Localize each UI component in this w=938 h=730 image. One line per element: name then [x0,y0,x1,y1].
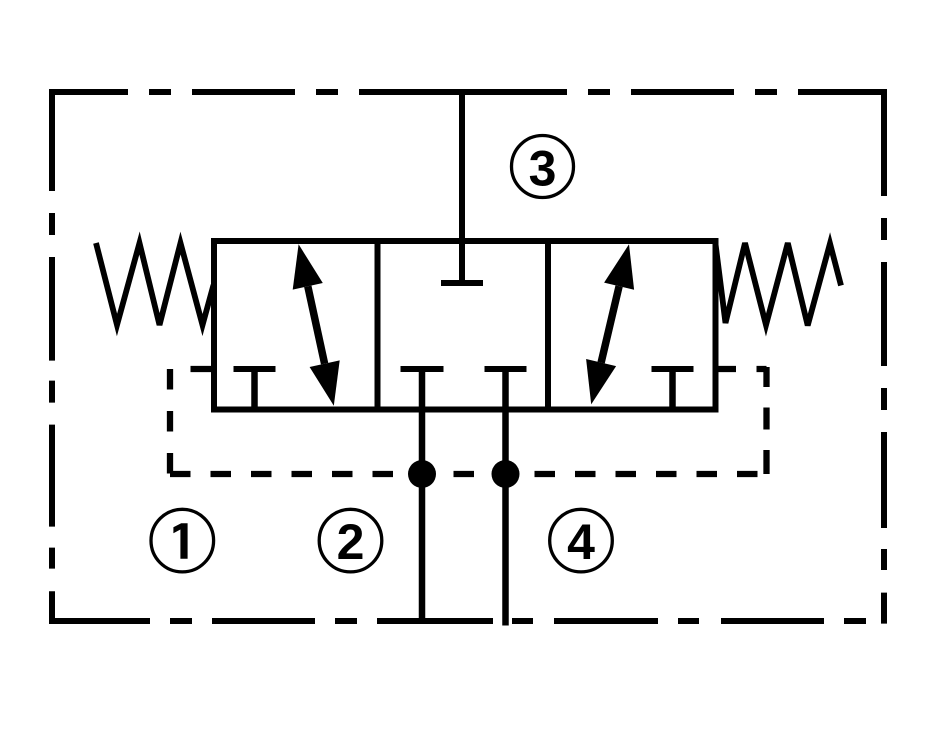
dashed box left edge [167,369,173,474]
right spring [716,243,842,326]
blocked port T (middle cell, port 4) [485,369,527,410]
cartridge envelope border bottom (dash-dot) [49,618,884,624]
right position arrow (double-headed) [586,244,634,404]
port label 3 (circled) [512,136,574,198]
junction dot port 4 [492,460,520,488]
pilot line end bar [441,280,483,286]
svg-text:3: 3 [529,141,557,197]
port label 1 (circled) [151,509,214,572]
pilot boundary dashed box [170,367,767,474]
port 4 line (vertical) [502,409,509,626]
blocked port T (left cell) [234,369,276,410]
valve body outline [214,241,716,410]
blocked port T (middle cell, port 2) [401,369,444,410]
dashed box right edge [763,367,769,474]
pilot line (port 3 vertical) [459,92,465,283]
left spring [96,243,214,325]
dashed box top-left segment [170,366,213,372]
svg-text:4: 4 [567,514,595,570]
port label 4 (circled) [550,509,613,572]
dashed box top-right segment [716,366,767,372]
blocked port T (right cell) [652,369,694,410]
left position arrow (double-headed) [293,244,340,405]
cartridge envelope border right (dash-dot) [881,89,887,624]
junction dot port 2 [408,460,436,488]
svg-text:2: 2 [337,514,365,570]
port 2 line (vertical) [419,409,426,621]
position divider right [545,241,551,410]
port label 2 (circled) [319,509,382,572]
cartridge envelope border top (dash-dot) [49,89,887,95]
position divider left [375,241,381,410]
dashed box bottom edge [170,471,767,477]
cartridge envelope border left (dash-dot) [49,89,55,624]
